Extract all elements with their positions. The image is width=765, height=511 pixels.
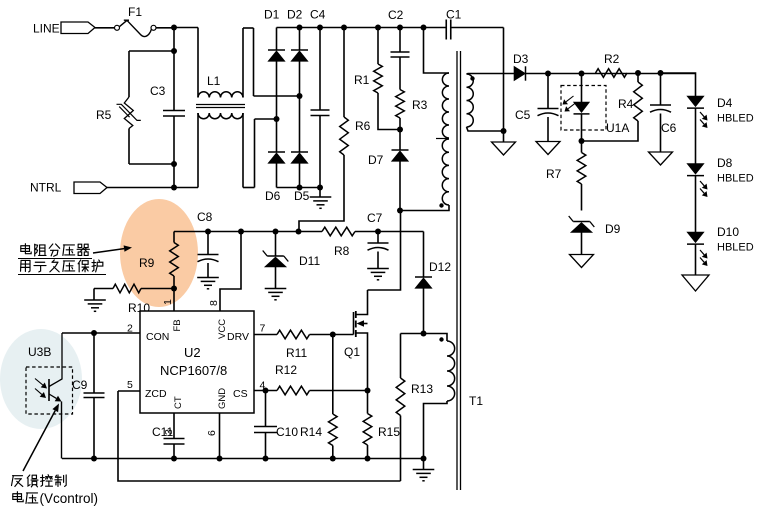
junction C1 left / primary top — [421, 25, 427, 31]
wire primary bottom to node — [400, 205, 449, 211]
svg-text:U3B: U3B — [28, 345, 51, 359]
resistor R9 divider — [173, 232, 175, 243]
pin 2 CON stub — [62, 332, 140, 334]
ground at C8 — [197, 277, 219, 279]
annotation text resistor divider for UV protection — [24, 244, 26, 254]
junction R1 top — [375, 25, 381, 31]
svg-text:DRV: DRV — [227, 331, 249, 343]
svg-text:D8: D8 — [717, 156, 733, 170]
wire drain from aux node — [368, 211, 401, 291]
diode D3 output rectifier — [514, 66, 526, 80]
node R9/R10/FB — [171, 286, 177, 292]
pin 4 CS stub — [254, 390, 277, 392]
svg-text:C4: C4 — [310, 8, 326, 22]
capacitor C5 output — [545, 71, 551, 77]
annotation arrow to R9 — [93, 249, 124, 253]
light arrows from U1A — [566, 96, 573, 102]
svg-text:D1: D1 — [264, 8, 280, 22]
wire bridge top rail — [277, 27, 447, 29]
ground at D11 — [265, 288, 287, 290]
svg-text:R6: R6 — [355, 119, 371, 133]
node primary bottom — [397, 208, 403, 214]
ground secondary return — [503, 131, 505, 142]
node R6 feed — [296, 229, 302, 235]
capacitor C3 — [173, 51, 175, 111]
resistor R10 — [113, 284, 141, 293]
pin 6 GND stub — [219, 413, 221, 459]
svg-text:D12: D12 — [429, 260, 451, 274]
secondary polarity dot — [470, 76, 474, 80]
svg-text:R9: R9 — [139, 256, 155, 270]
pin 1 FB stub — [173, 289, 175, 312]
svg-text:CT: CT — [173, 396, 184, 409]
ground at D9 — [570, 255, 594, 268]
LED D8 — [687, 164, 704, 175]
zener D11 vcc clamp — [273, 229, 279, 235]
op-amp U2 NCP1607/8 controller — [140, 311, 254, 413]
svg-text:D3: D3 — [513, 52, 529, 66]
svg-text:D5: D5 — [294, 189, 310, 203]
optocoupler U3B phototransistor — [26, 367, 73, 414]
svg-text:7: 7 — [260, 323, 266, 335]
svg-text:ZCD: ZCD — [145, 388, 167, 400]
svg-text:R1: R1 — [354, 73, 370, 87]
svg-text:R4: R4 — [618, 97, 634, 111]
diode D1 — [276, 28, 278, 51]
aux polarity dot — [439, 337, 443, 341]
terminal LINE — [61, 22, 95, 34]
svg-text:VCC: VCC — [217, 319, 228, 339]
svg-text:NCP1607/8: NCP1607/8 — [160, 363, 227, 378]
node U1A cathode/R4/R7 — [579, 138, 585, 144]
svg-text:R3: R3 — [412, 98, 428, 112]
svg-text:LINE: LINE — [33, 22, 60, 36]
resistor R3 — [399, 57, 401, 90]
LED D10 — [687, 232, 704, 243]
svg-text:R13: R13 — [411, 382, 433, 396]
wire to primary top — [424, 28, 450, 74]
junction C2 top — [397, 25, 403, 31]
resistor R2 — [596, 69, 628, 78]
svg-text:R5: R5 — [96, 108, 112, 122]
capacitor C2 — [399, 28, 401, 53]
svg-text:HBLED: HBLED — [717, 173, 754, 185]
svg-text:1: 1 — [162, 299, 174, 305]
wire R8 to C7 node — [355, 231, 424, 233]
ground at C6 — [649, 152, 673, 165]
transformer T1 core — [456, 51, 458, 490]
light arrows into U3B — [35, 379, 43, 386]
transformer T1 primary winding — [442, 73, 449, 138]
node main ground — [421, 456, 427, 462]
wire down to NTRL line — [173, 164, 175, 188]
svg-text:D11: D11 — [299, 254, 320, 268]
transformer T1 secondary winding — [467, 74, 474, 127]
svg-text:2: 2 — [127, 323, 133, 335]
svg-text:R15: R15 — [378, 425, 400, 439]
svg-text:C5: C5 — [515, 108, 531, 122]
ground primary main — [423, 459, 425, 470]
node bridge AC1 — [297, 93, 303, 99]
highlight ellipse around R9 (undervoltage divider) — [120, 199, 198, 307]
primary polarity dot — [439, 203, 443, 207]
choke L1 bottom winding — [197, 113, 199, 188]
capacitor C1 coupling — [445, 20, 447, 40]
diode D2 — [299, 28, 301, 51]
svg-text:CS: CS — [233, 388, 248, 400]
svg-text:T1: T1 — [469, 394, 483, 408]
highlight ellipse around U3B optocoupler — [0, 329, 82, 429]
svg-text:NTRL: NTRL — [30, 181, 62, 195]
svg-text:R7: R7 — [546, 167, 562, 181]
junction R4 top — [635, 70, 641, 76]
terminal NTRL — [74, 182, 107, 194]
svg-text:R8: R8 — [334, 244, 350, 258]
svg-text:U1A: U1A — [606, 121, 629, 135]
svg-text:D7: D7 — [368, 153, 384, 167]
svg-text:D4: D4 — [717, 96, 733, 110]
fuse F1 — [115, 25, 120, 30]
resistor R7 — [581, 141, 583, 153]
wire output rail — [548, 73, 696, 75]
node A junction — [171, 25, 177, 31]
node gate/R14 — [330, 332, 336, 338]
svg-text:HBLED: HBLED — [717, 242, 754, 254]
svg-text:FB: FB — [172, 319, 183, 331]
wire aux top — [401, 334, 448, 342]
svg-text:D9: D9 — [605, 222, 621, 236]
node bridge AC2 — [274, 116, 280, 122]
capacitor C4 bulk — [319, 28, 321, 111]
ground at R10 — [93, 289, 95, 301]
wire LINE to fuse — [95, 27, 114, 29]
ground at C4/bridge — [319, 188, 321, 198]
svg-text:R12: R12 — [275, 363, 297, 377]
transistor Q1 MOSFET — [353, 312, 355, 335]
svg-text:C1: C1 — [446, 8, 462, 22]
wire primary ground rail — [62, 458, 424, 460]
capacitor C11 timing — [164, 438, 185, 440]
capacitor C7 — [368, 242, 389, 244]
transformer T1 aux winding — [447, 341, 455, 401]
capacitor C9 — [91, 330, 97, 336]
wire ZCD sense — [118, 391, 401, 481]
ground at C5 — [536, 142, 560, 155]
wire D10 to ground — [695, 244, 697, 275]
svg-text:GND: GND — [217, 388, 228, 409]
wire C1 right down to secondary return — [503, 28, 505, 132]
annotation text feedback control voltage — [13, 475, 23, 477]
wire aux bottom to ground — [424, 401, 448, 459]
wire L1 to bridge AC1 — [254, 95, 300, 97]
svg-text:C7: C7 — [367, 211, 383, 225]
svg-text:C2: C2 — [388, 8, 404, 22]
junction R6 top — [341, 25, 347, 31]
svg-text:D10: D10 — [717, 225, 739, 239]
node CS/C10 — [263, 388, 269, 394]
diode D5 — [299, 96, 301, 152]
svg-text:C6: C6 — [661, 121, 677, 135]
svg-text:8: 8 — [208, 300, 220, 306]
svg-text:L1: L1 — [207, 74, 221, 88]
ground LED string — [682, 275, 709, 291]
node R1/R3/D7 — [397, 127, 403, 133]
wire node A down to C3/R5 branch — [173, 28, 175, 52]
svg-text:D2: D2 — [287, 8, 303, 22]
wire NTRL to L1 — [107, 187, 198, 189]
node source/R15 — [365, 388, 371, 394]
svg-text:5: 5 — [127, 379, 133, 391]
diode D7 clamp — [399, 130, 401, 151]
optocoupler U1A LED — [561, 86, 606, 131]
svg-text:F1: F1 — [128, 5, 142, 19]
resistor R1 — [377, 28, 379, 65]
svg-text:CON: CON — [146, 331, 169, 343]
annotation arrow to U3B emitter — [23, 411, 55, 471]
wire D4 to D8 — [695, 108, 697, 163]
resistor R14 — [332, 335, 334, 415]
diode D12 aux rectifier — [423, 232, 425, 278]
svg-text:C9: C9 — [72, 378, 88, 392]
wire VCC to pin8 — [238, 229, 244, 235]
resistor R8 — [322, 227, 355, 236]
svg-text:C8: C8 — [197, 210, 213, 224]
wire secondary top to D3 — [467, 73, 515, 76]
svg-text:R2: R2 — [604, 52, 620, 66]
capacitor C8 vcc — [207, 232, 209, 255]
junction top rail D2 — [297, 25, 303, 31]
resistor R12 CS — [277, 386, 310, 395]
diode D6 — [276, 119, 278, 152]
ground at C7 — [367, 268, 389, 270]
resistor R11 gate — [277, 330, 310, 339]
capacitor C10 — [265, 391, 267, 427]
wire bridge bottom rail — [277, 187, 321, 189]
svg-text:Q1: Q1 — [344, 345, 360, 359]
wire L1 to bridge AC2 — [255, 118, 277, 120]
LED D4 — [687, 96, 704, 107]
wire to R5 branch — [129, 50, 174, 52]
svg-text:R14: R14 — [300, 425, 322, 439]
svg-text:D6: D6 — [265, 189, 281, 203]
node C7 — [375, 229, 381, 235]
resistor R4 — [634, 82, 643, 121]
junction C3/R5 bottom — [171, 161, 177, 167]
resistor R6 — [343, 28, 345, 118]
svg-text:U2: U2 — [184, 345, 201, 360]
resistor R13 ZCD — [400, 334, 402, 379]
wire fuse to node A — [156, 27, 174, 29]
pin 7 DRV stub — [254, 334, 277, 336]
svg-text:C11: C11 — [152, 425, 173, 439]
svg-text:C3: C3 — [150, 84, 166, 98]
svg-text:R11: R11 — [286, 346, 307, 360]
svg-text:HBLED: HBLED — [717, 113, 754, 125]
node secondary return — [501, 128, 507, 134]
svg-text:C10: C10 — [276, 425, 298, 439]
zener D9 — [573, 221, 590, 223]
svg-text:(Vcontrol): (Vcontrol) — [40, 491, 99, 506]
choke L1 core — [196, 104, 245, 106]
svg-text:6: 6 — [206, 430, 218, 436]
wire VCC rail — [174, 231, 322, 233]
wire secondary bottom — [467, 127, 504, 131]
choke L1 top winding — [197, 28, 199, 98]
resistor R15 — [367, 391, 369, 414]
capacitor C6 — [660, 73, 662, 105]
pin 3 CT stub — [173, 413, 175, 439]
junction C6 top — [658, 70, 664, 76]
varistor R5 — [128, 51, 130, 97]
wire to LED string — [661, 73, 696, 96]
node aux top / D12 anode — [421, 331, 427, 337]
pin 5 ZCD stub — [118, 390, 140, 392]
wire D8 to D10 — [695, 176, 697, 232]
